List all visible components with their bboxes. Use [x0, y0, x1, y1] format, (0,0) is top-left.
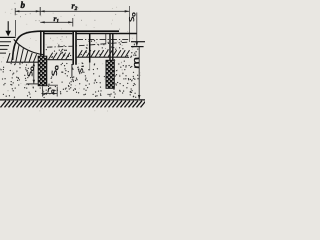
slope hatching left band	[7, 45, 37, 62]
right well filter (checkered)	[106, 60, 114, 88]
lowered level lines at right edge	[131, 41, 145, 43]
river bank slope curve	[13, 31, 41, 60]
extension line before right well	[105, 34, 107, 45]
pit right wall lower extension	[71, 64, 73, 78]
arrowheads of r2	[40, 10, 44, 12]
label s0 right of left filter (rotated)	[52, 66, 58, 75]
shared tick at pit wall (b/r2, r1 origin)	[39, 7, 41, 15]
pit top / ground surface upper line	[40, 30, 119, 32]
s0 dimension vertical line	[136, 13, 138, 46]
s0 down arrow	[136, 42, 139, 46]
water hatching short lines	[0, 42, 11, 53]
paper background	[0, 0, 145, 115]
extension tick left end of b	[14, 8, 16, 37]
label s1 near right well (rotated)	[79, 66, 84, 72]
m dimension line at right edge	[138, 47, 140, 99]
middle pipe faint lower part	[89, 63, 91, 71]
water level arrow symbol	[7, 21, 9, 31]
pit left wall (doubled, continues into well)	[41, 31, 44, 56]
ground line right part	[77, 56, 128, 58]
well axis tick below left filter	[42, 86, 44, 96]
l0 dimension line left of filter	[33, 63, 35, 84]
r1 arrowheads	[41, 21, 45, 23]
svg-text:b: b	[21, 0, 26, 10]
left well filter (checkered)	[38, 56, 47, 85]
filter bottom reference tick	[27, 83, 39, 85]
extension line at r2 end going down to water table	[129, 6, 131, 42]
dimension line r1	[40, 21, 72, 23]
ground surface lower line	[44, 33, 137, 35]
label r0	[48, 88, 54, 93]
pit bottom line (inside)	[47, 59, 72, 61]
filter bottom level tick right	[47, 84, 58, 86]
hatching right band	[78, 50, 130, 57]
arrowheads of b	[15, 10, 19, 12]
right wellpoint pipe (doubled)	[110, 34, 113, 61]
water surface line	[0, 36, 16, 38]
middle wellpoint pipe	[89, 34, 91, 63]
dimension line b and r2 (shared horizontal)	[15, 10, 129, 12]
impervious layer hatching	[1, 101, 146, 108]
original water table (dash-dot)	[77, 39, 130, 41]
depression curve from river	[14, 39, 45, 54]
lowered water table (dash-dot, sagging)	[47, 42, 128, 47]
pit right wall (doubled)	[73, 31, 76, 65]
soil stipple dots	[1, 41, 138, 98]
label s0 (filter length, rotated)	[28, 67, 34, 76]
r1 end tick	[72, 18, 74, 27]
r0 dimension line	[43, 93, 57, 95]
scan noise speckle	[3, 7, 140, 111]
r0 right tick	[56, 87, 58, 97]
label s0 (drawdown, rotated, top right)	[129, 13, 135, 21]
label m (rotated)	[134, 58, 139, 67]
ground line under slope (left)	[6, 61, 38, 63]
impervious layer top line	[0, 99, 145, 101]
pit bottom hatching	[49, 53, 70, 60]
